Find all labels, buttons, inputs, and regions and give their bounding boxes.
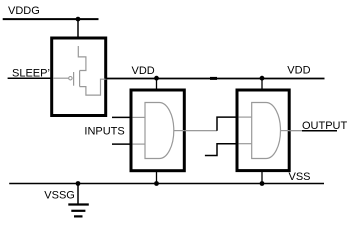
sleep transistor cell box	[52, 38, 106, 116]
wire VDD rail thick tick	[210, 77, 217, 80]
svg-text:VSS: VSS	[289, 171, 311, 183]
gate U2 AND body	[252, 103, 281, 159]
wire input B to gate U1	[112, 143, 131, 145]
transistor Q1 gate bar	[73, 72, 75, 86]
wire SLEEP' input	[8, 77, 52, 79]
node junction VDD to gate U2	[260, 76, 265, 81]
transistor Q1 gate lead	[53, 77, 68, 79]
gate U1 cell box	[131, 90, 184, 171]
gate U2 input lead B	[239, 143, 252, 145]
wire U2 output gray segment	[289, 130, 302, 132]
wire step U1 output to U2 input A	[217, 117, 237, 131]
transistor Q1 channel bar	[79, 71, 81, 87]
gate U1 input lead A	[133, 116, 145, 118]
svg-text:VDD: VDD	[287, 65, 310, 77]
wire VSS rail	[9, 183, 324, 185]
transistor Q1 drain routing	[80, 79, 108, 95]
wire OUTPUT net	[302, 130, 337, 132]
wire VDD rail	[106, 78, 325, 80]
wire VDD feed to gate U2	[261, 78, 263, 90]
gate U2 cell box	[237, 90, 289, 171]
svg-text:INPUTS: INPUTS	[84, 126, 124, 138]
node junction VSS to gate U1	[154, 181, 159, 186]
wire U1 output net	[184, 130, 217, 132]
svg-text:VDDG: VDDG	[8, 5, 40, 17]
node junction VSS ground tap	[76, 181, 81, 186]
wire VDDG rail	[3, 18, 99, 20]
gate U2 input lead A	[239, 116, 252, 118]
ground symbol bar 3	[74, 215, 83, 217]
wire input A to gate U1	[112, 116, 131, 118]
wire stub to U2 input B	[205, 144, 237, 156]
node junction on VDDG rail	[76, 17, 81, 22]
ground symbol bar 1	[68, 203, 89, 205]
transistor Q1 gate bubble	[69, 77, 72, 80]
node junction VDD to gate U1	[154, 76, 159, 81]
gate U1 AND body	[145, 103, 174, 159]
wire VDDG feed into sleep-transistor box	[77, 19, 79, 46]
wire VSS feed from gate U2	[261, 171, 263, 184]
ground symbol bar 2	[71, 210, 85, 212]
svg-text:VDD: VDD	[132, 65, 155, 77]
wire VDD feed to gate U1	[156, 78, 158, 90]
svg-text:VSSG: VSSG	[44, 190, 75, 202]
transistor Q1 source routing	[78, 46, 86, 71]
node junction VSS to gate U2	[260, 181, 265, 186]
gate U2 output lead	[281, 130, 290, 132]
wire VSS feed from gate U1	[156, 171, 158, 184]
wire ground drop	[77, 184, 79, 205]
gate U1 input lead B	[133, 143, 145, 145]
gate U1 output lead	[174, 130, 185, 132]
